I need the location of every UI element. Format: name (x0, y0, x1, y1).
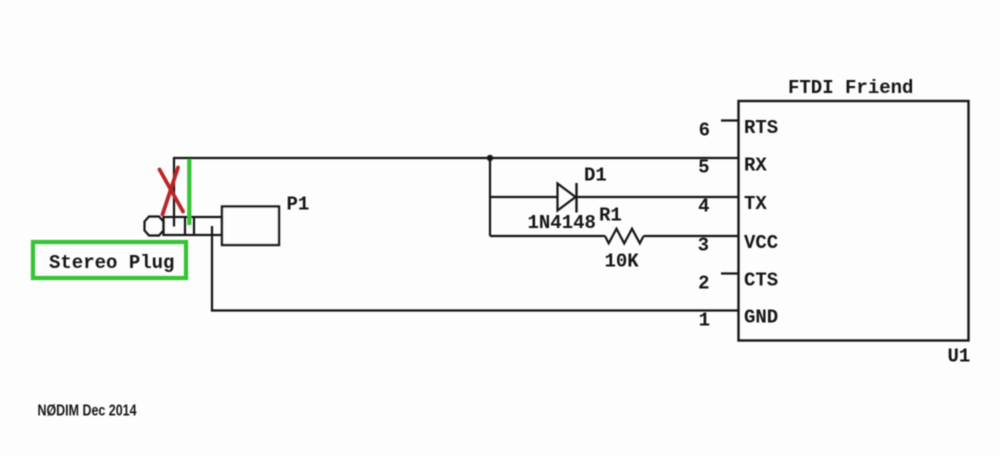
svg-text:GND: GND (744, 307, 778, 329)
svg-text:RX: RX (744, 155, 767, 177)
wire plug tip to RX (net RX) (174, 158, 739, 227)
svg-text:1N4148: 1N4148 (528, 212, 596, 234)
green highlight line on plug ring (187, 159, 191, 225)
svg-text:U1: U1 (948, 346, 971, 368)
diode D1 cathode bar (575, 183, 577, 213)
svg-text:D1: D1 (584, 165, 607, 187)
svg-text:CTS: CTS (744, 270, 778, 292)
plug ring divider 1 (184, 217, 186, 235)
green callout box (33, 242, 186, 278)
svg-text:10K: 10K (605, 251, 640, 273)
svg-text:RTS: RTS (744, 117, 778, 139)
svg-text:2: 2 (698, 273, 709, 295)
diode D1 triangle (558, 184, 576, 211)
svg-text:VCC: VCC (744, 232, 778, 254)
svg-text:P1: P1 (287, 194, 310, 216)
wire to resistor (VCC branch) (490, 235, 605, 237)
wire to diode anode (TX branch) (490, 196, 558, 198)
pin 6 RTS stub (721, 119, 739, 121)
plug ring divider 2 (193, 217, 195, 235)
plug P1 shaft (164, 217, 223, 235)
plug P1 tip octagon (145, 217, 164, 236)
svg-text:R1: R1 (599, 205, 622, 227)
svg-text:FTDI Friend: FTDI Friend (788, 77, 913, 99)
svg-text:4: 4 (698, 196, 709, 218)
wire plug sleeve to GND pin (net GND) (212, 226, 739, 311)
svg-text:1: 1 (699, 310, 710, 332)
svg-text:3: 3 (698, 235, 709, 257)
pin 2 CTS stub (721, 272, 739, 274)
wire diode cathode to TX pin (577, 196, 739, 198)
IC U1 FTDI Friend box (739, 101, 969, 341)
svg-text:5: 5 (698, 157, 709, 179)
red X mark over tip wire (160, 168, 184, 215)
svg-text:Stereo Plug: Stereo Plug (49, 252, 174, 274)
svg-text:6: 6 (699, 120, 710, 142)
wire junction vertical branch (489, 158, 491, 236)
resistor R1 zigzag (605, 229, 644, 244)
svg-text:TX: TX (744, 193, 767, 215)
plug P1 body (222, 207, 279, 246)
svg-text:NØDIM Dec 2014: NØDIM Dec 2014 (38, 403, 137, 420)
wire resistor to VCC pin (644, 235, 739, 237)
junction dot at RX net (487, 155, 493, 161)
